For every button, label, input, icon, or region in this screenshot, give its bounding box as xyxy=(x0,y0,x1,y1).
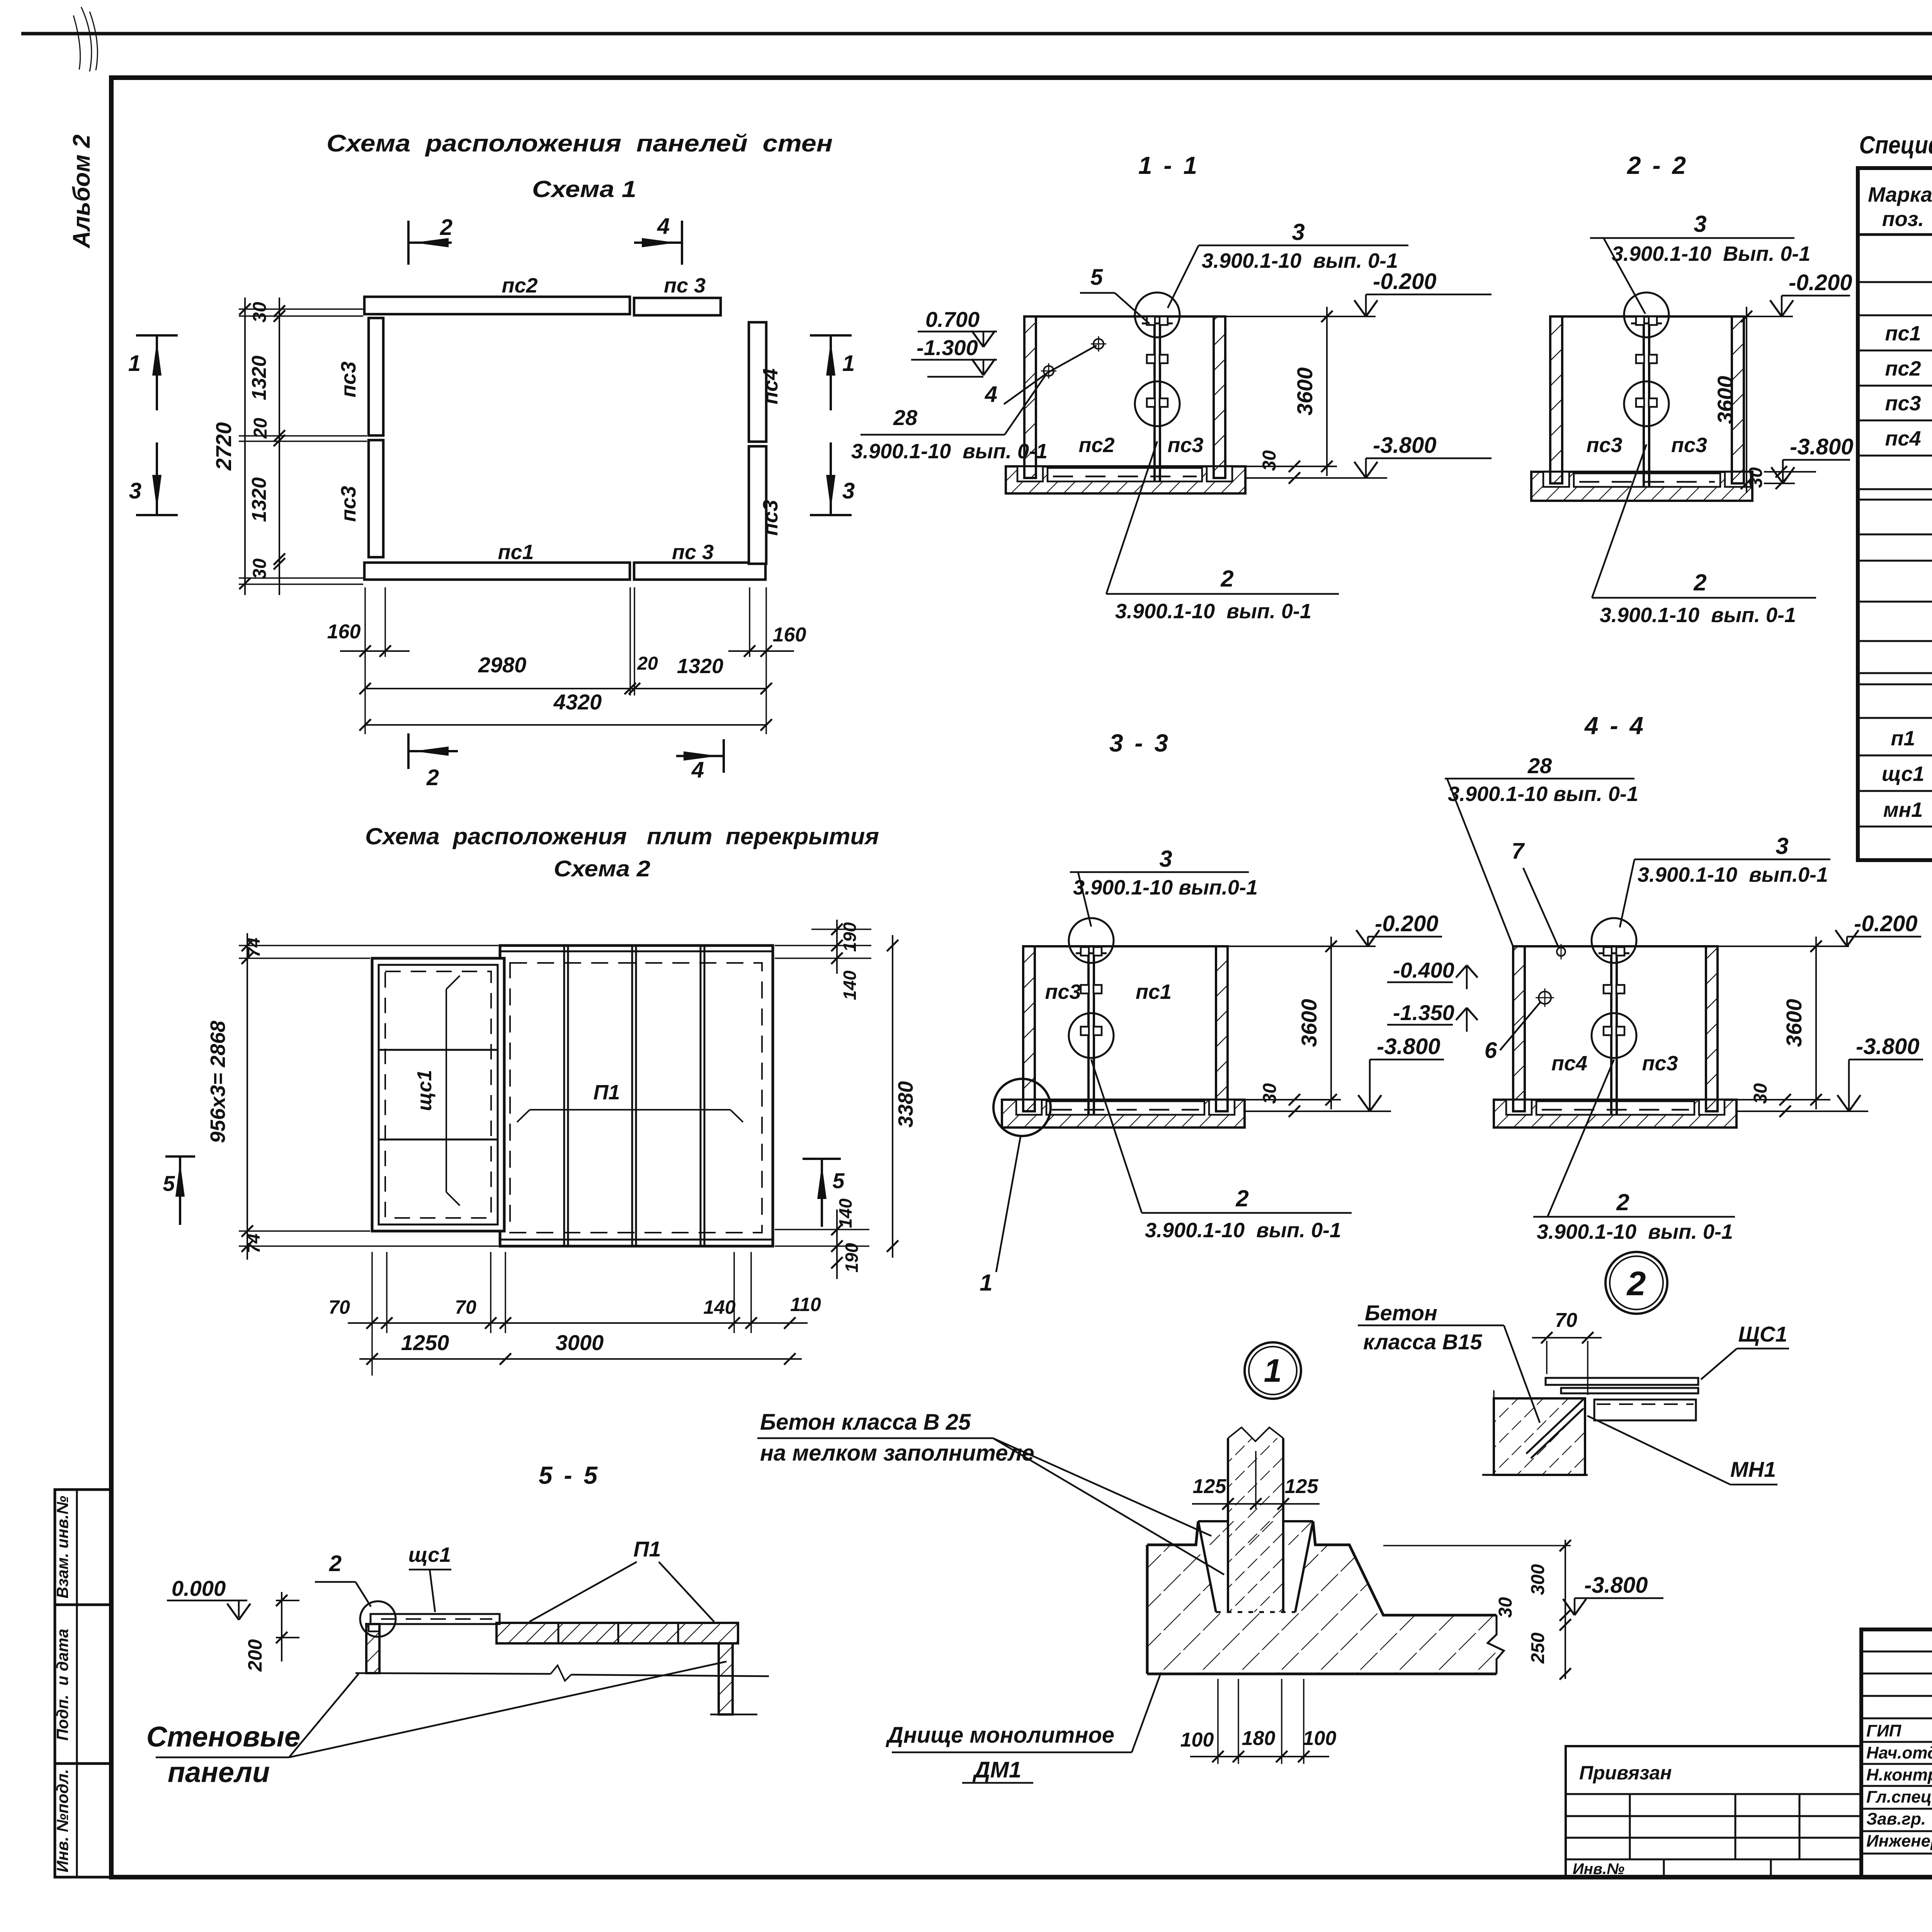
svg-text:2: 2 xyxy=(1626,1264,1646,1303)
svg-text:Бетон: Бетон xyxy=(1365,1301,1437,1325)
svg-text:пс3: пс3 xyxy=(759,500,782,536)
svg-text:140: 140 xyxy=(840,970,860,1000)
svg-text:Схема 2: Схема 2 xyxy=(554,856,650,881)
svg-text:Схема 1: Схема 1 xyxy=(532,176,636,202)
svg-text:1250: 1250 xyxy=(401,1330,449,1355)
svg-text:30: 30 xyxy=(1495,1597,1516,1618)
svg-text:3.900.1-10 вып. 0-1: 3.900.1-10 вып. 0-1 xyxy=(1600,604,1796,627)
svg-text:-0.200: -0.200 xyxy=(1854,911,1917,936)
svg-text:поз.: поз. xyxy=(1882,207,1924,231)
svg-text:панели: панели xyxy=(168,1756,270,1788)
svg-text:4: 4 xyxy=(657,214,670,239)
svg-text:160: 160 xyxy=(773,624,806,646)
svg-text:30: 30 xyxy=(250,558,270,579)
svg-text:Днище монолитное: Днище монолитное xyxy=(885,1723,1114,1748)
svg-text:30: 30 xyxy=(1260,1083,1280,1104)
svg-text:Инженер: Инженер xyxy=(1866,1832,1932,1850)
svg-text:Нач.отд.: Нач.отд. xyxy=(1866,1743,1932,1762)
svg-text:1320: 1320 xyxy=(248,355,270,400)
svg-text:Альбом 2: Альбом 2 xyxy=(68,134,95,249)
svg-text:300: 300 xyxy=(1528,1564,1548,1595)
svg-text:Инв.№: Инв.№ xyxy=(1573,1861,1624,1878)
svg-text:щс1: щс1 xyxy=(408,1543,451,1566)
svg-text:2: 2 xyxy=(426,765,439,790)
svg-text:-0.200: -0.200 xyxy=(1375,911,1438,936)
svg-text:Стеновые: Стеновые xyxy=(146,1721,300,1753)
svg-text:0.700: 0.700 xyxy=(925,307,980,332)
svg-text:Марка,: Марка, xyxy=(1868,183,1932,206)
svg-text:3: 3 xyxy=(842,478,855,503)
svg-text:пс3: пс3 xyxy=(337,486,360,522)
svg-text:П1: П1 xyxy=(594,1081,620,1104)
svg-text:956х3= 2868: 956х3= 2868 xyxy=(206,1021,230,1143)
svg-text:3000: 3000 xyxy=(556,1330,604,1355)
svg-text:пс2: пс2 xyxy=(1078,434,1114,457)
svg-text:-3.800: -3.800 xyxy=(1377,1034,1440,1059)
svg-text:пс 3: пс 3 xyxy=(664,274,706,297)
svg-text:4 - 4: 4 - 4 xyxy=(1584,712,1646,740)
svg-text:3: 3 xyxy=(1694,211,1706,237)
svg-text:пс3: пс3 xyxy=(1885,392,1921,415)
svg-text:3: 3 xyxy=(1159,846,1172,872)
svg-text:70: 70 xyxy=(455,1296,476,1318)
svg-text:3 - 3: 3 - 3 xyxy=(1109,729,1170,757)
svg-text:-3.800: -3.800 xyxy=(1584,1573,1648,1598)
svg-text:пс2: пс2 xyxy=(502,274,537,297)
svg-text:Зав.гр.: Зав.гр. xyxy=(1866,1810,1926,1828)
svg-text:5 - 5: 5 - 5 xyxy=(539,1461,600,1489)
svg-text:-3.800: -3.800 xyxy=(1856,1034,1919,1059)
svg-text:1 - 1: 1 - 1 xyxy=(1138,151,1199,179)
svg-text:0.000: 0.000 xyxy=(172,1576,226,1600)
svg-text:1: 1 xyxy=(980,1270,992,1296)
svg-text:2: 2 xyxy=(1220,566,1233,592)
svg-text:пс3: пс3 xyxy=(1671,434,1707,457)
svg-text:-1.300: -1.300 xyxy=(917,335,978,360)
svg-text:пс4: пс4 xyxy=(1885,427,1921,450)
svg-text:Н.контр.: Н.контр. xyxy=(1866,1765,1932,1784)
svg-text:250: 250 xyxy=(1528,1633,1548,1664)
svg-text:5: 5 xyxy=(163,1171,175,1196)
svg-text:3380: 3380 xyxy=(894,1081,917,1128)
svg-text:2 - 2: 2 - 2 xyxy=(1627,151,1688,179)
svg-text:Привязан: Привязан xyxy=(1579,1762,1672,1784)
svg-text:-0.200: -0.200 xyxy=(1373,269,1436,294)
svg-text:ГИП: ГИП xyxy=(1866,1721,1902,1740)
svg-text:6: 6 xyxy=(1485,1038,1497,1063)
svg-text:30: 30 xyxy=(250,302,270,323)
svg-text:-0.400: -0.400 xyxy=(1393,958,1454,982)
svg-text:П1: П1 xyxy=(633,1537,661,1561)
svg-text:пс4: пс4 xyxy=(1551,1052,1587,1075)
svg-text:Схема расположения панелей: Схема расположения панелей стен xyxy=(327,130,833,157)
svg-text:3600: 3600 xyxy=(1713,376,1737,424)
svg-text:3600: 3600 xyxy=(1782,999,1806,1047)
svg-text:140: 140 xyxy=(703,1296,736,1318)
svg-text:ЩС1: ЩС1 xyxy=(1738,1322,1787,1346)
svg-text:3600: 3600 xyxy=(1297,999,1321,1047)
svg-text:пс1: пс1 xyxy=(498,541,534,564)
svg-text:125: 125 xyxy=(1193,1475,1227,1498)
svg-text:4: 4 xyxy=(985,382,997,407)
svg-text:Инв. №подл.: Инв. №подл. xyxy=(53,1769,71,1872)
svg-text:125: 125 xyxy=(1285,1475,1319,1498)
svg-text:пс3: пс3 xyxy=(1642,1052,1678,1075)
svg-text:180: 180 xyxy=(1242,1727,1276,1750)
svg-text:Бетон класса В 25: Бетон класса В 25 xyxy=(760,1410,971,1435)
svg-text:-0.200: -0.200 xyxy=(1789,270,1852,295)
svg-text:2720: 2720 xyxy=(211,422,236,471)
svg-text:-3.800: -3.800 xyxy=(1373,433,1436,458)
svg-text:щс1: щс1 xyxy=(413,1070,436,1111)
svg-text:пс4: пс4 xyxy=(759,368,782,404)
svg-text:7: 7 xyxy=(1512,838,1525,864)
svg-text:4: 4 xyxy=(691,757,704,782)
svg-text:3.900.1-10 вып. 0-1: 3.900.1-10 вып. 0-1 xyxy=(1202,249,1398,272)
svg-text:1: 1 xyxy=(842,351,855,376)
svg-text:пс3: пс3 xyxy=(337,361,360,397)
svg-text:74: 74 xyxy=(243,1233,264,1253)
svg-text:70: 70 xyxy=(1555,1309,1577,1332)
svg-text:1320: 1320 xyxy=(248,477,270,522)
svg-text:-1.350: -1.350 xyxy=(1393,1000,1454,1025)
svg-text:3600: 3600 xyxy=(1293,367,1317,416)
svg-text:3.900.1-10 вып.0-1: 3.900.1-10 вып.0-1 xyxy=(1638,863,1828,886)
svg-text:3.900.1-10 вып. 0-1: 3.900.1-10 вып. 0-1 xyxy=(1115,600,1311,623)
svg-text:2: 2 xyxy=(1693,570,1706,595)
svg-text:30: 30 xyxy=(1750,1083,1771,1104)
svg-text:пс1: пс1 xyxy=(1136,980,1172,1003)
svg-text:Спецификация к схемам располож: Спецификация к схемам расположения панел… xyxy=(1859,131,1932,159)
svg-text:3: 3 xyxy=(1776,833,1788,859)
svg-text:Подп. и дата: Подп. и дата xyxy=(53,1629,71,1741)
svg-text:пс3: пс3 xyxy=(1045,980,1081,1003)
svg-text:1320: 1320 xyxy=(677,655,723,678)
svg-text:3.900.1-10 вып. 0-1: 3.900.1-10 вып. 0-1 xyxy=(1537,1220,1733,1243)
svg-text:3: 3 xyxy=(129,478,141,503)
svg-text:2: 2 xyxy=(1616,1189,1629,1215)
svg-text:2: 2 xyxy=(440,215,452,240)
svg-text:5: 5 xyxy=(832,1168,845,1193)
svg-text:на мелком заполнителе: на мелком заполнителе xyxy=(760,1440,1034,1466)
svg-text:МН1: МН1 xyxy=(1730,1457,1776,1481)
svg-text:110: 110 xyxy=(790,1294,821,1315)
svg-text:пс3: пс3 xyxy=(1167,434,1203,457)
svg-text:2: 2 xyxy=(329,1551,342,1576)
svg-text:пс2: пс2 xyxy=(1885,357,1921,380)
svg-text:пс1: пс1 xyxy=(1885,322,1921,345)
svg-text:28: 28 xyxy=(893,405,918,430)
svg-text:3.900.1-10 вып. 0-1: 3.900.1-10 вып. 0-1 xyxy=(851,440,1048,463)
svg-text:20: 20 xyxy=(250,418,271,439)
svg-text:ДМ1: ДМ1 xyxy=(972,1757,1021,1782)
svg-text:3.900.1-10 вып. 0-1: 3.900.1-10 вып. 0-1 xyxy=(1448,782,1638,806)
svg-text:74: 74 xyxy=(243,937,264,957)
svg-text:5: 5 xyxy=(1090,265,1103,290)
svg-text:Гл.спец.: Гл.спец. xyxy=(1866,1787,1932,1806)
svg-text:щс1: щс1 xyxy=(1882,762,1925,786)
svg-text:1: 1 xyxy=(128,351,141,376)
svg-text:160: 160 xyxy=(327,621,361,643)
svg-text:Схема расположения плит пе: Схема расположения плит перекрытия xyxy=(365,823,879,849)
svg-text:2980: 2980 xyxy=(478,653,527,677)
svg-text:3: 3 xyxy=(1292,219,1304,245)
svg-text:пс 3: пс 3 xyxy=(672,541,714,564)
svg-text:200: 200 xyxy=(244,1639,266,1672)
svg-text:Взам. инв.№: Взам. инв.№ xyxy=(53,1496,71,1599)
svg-text:30: 30 xyxy=(1259,450,1280,471)
svg-text:п1: п1 xyxy=(1891,727,1915,750)
svg-text:1: 1 xyxy=(1264,1352,1282,1389)
svg-text:190: 190 xyxy=(842,1243,862,1272)
svg-text:4320: 4320 xyxy=(553,690,602,714)
svg-text:3.900.1-10 вып. 0-1: 3.900.1-10 вып. 0-1 xyxy=(1145,1219,1341,1242)
svg-text:2: 2 xyxy=(1235,1185,1248,1211)
svg-text:класса В15: класса В15 xyxy=(1363,1330,1482,1354)
svg-text:190: 190 xyxy=(840,922,860,952)
svg-text:3.900.1-10 Вып. 0-1: 3.900.1-10 Вып. 0-1 xyxy=(1612,242,1810,265)
svg-text:20: 20 xyxy=(637,653,658,674)
svg-text:100: 100 xyxy=(1303,1727,1337,1750)
svg-text:мн1: мн1 xyxy=(1883,798,1923,821)
svg-text:3.900.1-10 вып.0-1: 3.900.1-10 вып.0-1 xyxy=(1073,876,1258,899)
svg-text:28: 28 xyxy=(1527,753,1552,778)
svg-text:-3.800: -3.800 xyxy=(1790,434,1853,459)
svg-text:140: 140 xyxy=(835,1198,855,1228)
svg-text:пс3: пс3 xyxy=(1586,434,1622,457)
svg-text:70: 70 xyxy=(328,1296,350,1318)
svg-text:30: 30 xyxy=(1746,467,1766,488)
svg-text:100: 100 xyxy=(1180,1729,1214,1751)
